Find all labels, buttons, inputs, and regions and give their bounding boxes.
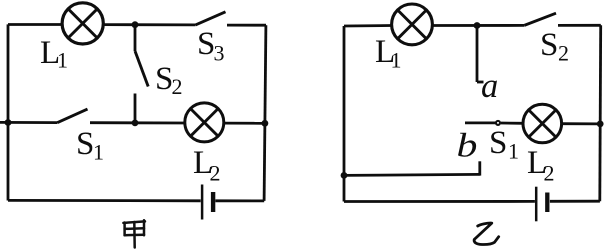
wire: pivot to lamp L2 [501,122,523,125]
svg-text:2: 2 [172,74,183,99]
svg-text:1: 1 [391,48,402,73]
node: junction dot middle-left [5,119,12,126]
switch S1 blade (right circuit lever) [465,122,496,125]
label L1 (left circuit) [40,35,68,73]
lamp L1 (right circuit) [392,4,433,45]
switch S3 blade [196,12,226,25]
wire: right circuit right edge [598,25,602,201]
switch S1 pivot circle [496,121,500,125]
wire: middle wire left segment to switch S1 [0,121,58,124]
label 乙 (hand-drawn) [474,223,499,244]
wire: switch S3 right terminal to top-right corner [227,24,266,27]
battery cell (left circuit): short plate [211,192,215,212]
lamp L1 (left circuit) [62,3,103,44]
node: junction dot left (right circuit) [341,172,348,179]
wire: left circuit bottom, left segment to battery [8,199,201,202]
svg-text:3: 3 [214,40,225,65]
label S2 (right circuit) [540,27,569,65]
lamp L2 (left circuit) [185,103,224,142]
node: junction dot middle-center [132,120,139,127]
wire: lamp L2 to right edge [562,122,601,125]
wire: battery to bottom-right corner (right circuit) [550,200,600,203]
node: junction dot top of contact-a branch [474,22,481,29]
wire: battery to bottom-right corner [215,199,264,202]
wire: right circuit left edge [343,26,346,202]
svg-text:S: S [540,27,558,63]
wire: left circuit top, left segment to lamp L1 [8,23,62,26]
battery cell (right circuit): short plate [545,193,549,213]
battery cell (right circuit): long plate [535,187,538,222]
svg-text:S: S [76,126,94,162]
svg-text:2: 2 [210,161,221,186]
node: contact b tick [478,161,481,175]
svg-text:S: S [489,125,507,161]
label S2 (left circuit) [155,61,183,99]
wire: S2 upper lead [134,25,137,51]
label L1 (right circuit) [375,34,402,73]
wire: right circuit bottom, left segment to battery [344,200,535,203]
wire: lamp L2 to right edge [224,122,265,125]
svg-text:1: 1 [93,139,104,164]
wire: vertical lead down to contact a [476,26,479,83]
svg-text:a: a [481,67,498,105]
svg-text:1: 1 [57,48,68,73]
node: junction dot middle-right [262,120,269,127]
node: junction dot top of S2 branch [132,21,139,28]
wire: left circuit left edge [7,24,10,200]
wire: S2 lower lead [134,94,137,123]
label 甲 (hand-drawn) [123,220,145,247]
wire: right circuit top, left segment to lamp L1 [344,24,392,27]
label L2 (left circuit) [193,145,221,186]
switch S2 blade (right circuit) [524,13,556,25]
svg-text:2: 2 [544,161,555,186]
switch S2 blade [135,51,148,87]
switch S1 blade (left circuit) [58,109,88,123]
svg-text:b: b [457,127,478,164]
label S1 (right circuit) [489,125,519,164]
label L2 (right circuit) [527,145,555,186]
battery cell (left circuit): long plate [201,185,204,220]
wire: right circuit top, lamp L1 to switch S2 [432,24,524,27]
wire: S1 right terminal to lamp L2 [90,121,186,124]
svg-text:1: 1 [508,139,519,164]
wire: switch S2 right terminal to top-right corner [558,24,601,27]
label S1 (left circuit) [76,126,104,164]
node: junction dot middle-right (right circuit) [597,121,604,128]
wire: contact b horizontal lead [344,174,480,175]
svg-text:2: 2 [558,40,569,65]
wire: left circuit top, lamp L1 to switch S3 [102,23,196,26]
label S3 (left circuit) [197,26,225,65]
wire: left circuit right edge [264,25,266,201]
lamp L2 (right circuit) [523,104,562,143]
node: contact a foot tick [477,81,484,84]
